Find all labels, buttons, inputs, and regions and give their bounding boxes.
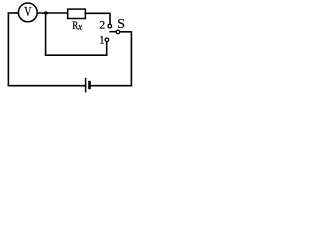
svg-text:V: V	[24, 4, 31, 19]
svg-text:R: R	[72, 18, 78, 32]
voltmeter V	[18, 3, 37, 22]
battery	[86, 78, 90, 93]
svg-text:x: x	[77, 22, 82, 33]
resistor Rx	[68, 9, 86, 33]
wire	[86, 13, 110, 24]
wire	[8, 12, 18, 14]
svg-text:S: S	[117, 17, 125, 32]
svg-text:1: 1	[99, 34, 105, 46]
node junction	[44, 11, 48, 15]
wire	[7, 13, 9, 86]
terminal 1	[99, 34, 109, 46]
svg-text:2: 2	[99, 18, 105, 32]
wire	[90, 85, 132, 87]
wire	[8, 85, 85, 87]
wire	[120, 32, 132, 86]
wire	[38, 12, 68, 14]
terminal 2	[99, 18, 111, 32]
switch S	[109, 17, 125, 34]
wire	[46, 13, 107, 55]
